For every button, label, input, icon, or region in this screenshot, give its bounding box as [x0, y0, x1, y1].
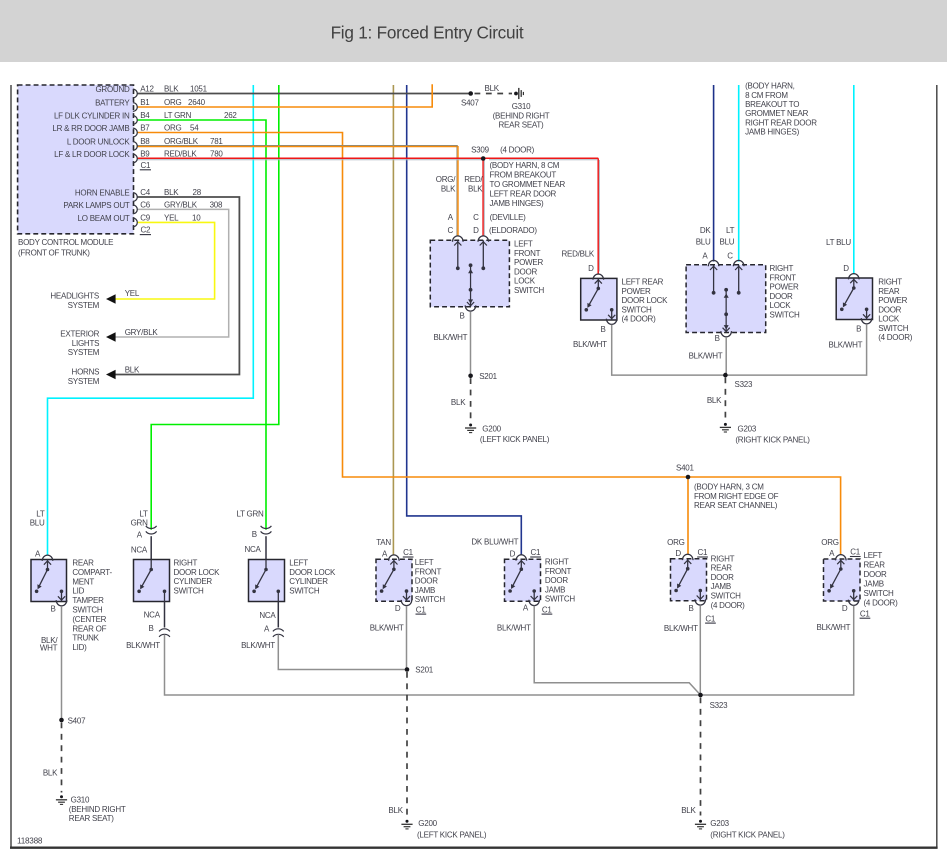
svg-text:JAMB HINGES): JAMB HINGES): [745, 128, 799, 137]
svg-text:LO BEAM OUT: LO BEAM OUT: [78, 214, 130, 223]
splice S323 upper: [723, 373, 728, 378]
svg-text:780: 780: [210, 150, 223, 159]
svg-text:LF DLK CYLINDER IN: LF DLK CYLINDER IN: [54, 112, 130, 121]
splice S323 lower: [698, 693, 703, 698]
svg-text:LR & RR DOOR JAMB: LR & RR DOOR JAMB: [52, 124, 129, 133]
BCM pin B9: [133, 154, 137, 163]
svg-text:C6: C6: [140, 200, 151, 209]
svg-text:DOOR: DOOR: [545, 576, 568, 585]
svg-text:118388: 118388: [17, 837, 43, 846]
svg-text:BLU: BLU: [719, 238, 734, 247]
wire BLK/WHT left front jamb to S201 lower: [406, 606, 408, 670]
svg-text:LOCK: LOCK: [514, 277, 536, 286]
svg-text:REAR: REAR: [711, 564, 733, 573]
svg-text:RIGHT: RIGHT: [878, 278, 902, 287]
svg-text:POWER: POWER: [878, 296, 907, 305]
splice S309: [481, 156, 486, 161]
svg-text:SWITCH: SWITCH: [864, 589, 895, 598]
svg-text:LEFT REAR: LEFT REAR: [622, 278, 664, 287]
svg-text:SWITCH: SWITCH: [878, 324, 909, 333]
wire BLK/WHT right rear jamb to S323 lower: [699, 605, 701, 695]
wire BLK/WHT right front power lock to S323: [725, 337, 727, 375]
svg-text:GROMMET NEAR: GROMMET NEAR: [745, 109, 809, 118]
svg-text:B7: B7: [140, 124, 150, 133]
svg-text:TRUNK: TRUNK: [72, 634, 99, 643]
svg-text:YEL: YEL: [164, 213, 179, 222]
ground G200 left kick panel lower: [406, 820, 409, 823]
svg-text:DOOR: DOOR: [514, 267, 537, 276]
wire BLK/WHT left rear power lock to S323 run: [612, 325, 726, 376]
svg-text:BLK/WHT: BLK/WHT: [573, 340, 607, 349]
svg-text:FRONT: FRONT: [770, 273, 797, 282]
svg-text:TAN: TAN: [376, 538, 391, 547]
svg-text:CYLINDER: CYLINDER: [174, 577, 213, 586]
wire DK BLU from top to right front power door lock switch pin A: [713, 85, 715, 262]
title bar: [0, 0, 947, 62]
svg-text:BLU: BLU: [696, 238, 711, 247]
svg-text:BLK/WHT: BLK/WHT: [829, 341, 863, 350]
svg-text:(4 DOOR): (4 DOOR): [500, 146, 535, 155]
svg-text:RIGHT: RIGHT: [770, 264, 794, 273]
svg-text:(4 DOOR): (4 DOOR): [878, 333, 913, 342]
svg-text:BLK/WHT: BLK/WHT: [664, 624, 698, 633]
svg-text:TO GROMMET NEAR: TO GROMMET NEAR: [490, 180, 566, 189]
svg-text:LT BLU: LT BLU: [826, 238, 851, 247]
svg-text:BLK/WHT: BLK/WHT: [817, 623, 851, 632]
svg-text:LID): LID): [72, 643, 87, 652]
svg-text:DK: DK: [700, 226, 712, 235]
svg-text:B: B: [51, 604, 56, 613]
svg-text:RIGHT: RIGHT: [174, 559, 198, 568]
svg-text:BLK/WHT: BLK/WHT: [434, 333, 468, 342]
svg-text:LT: LT: [36, 510, 45, 519]
wire A12 BLK 1051 to S407: [137, 93, 470, 95]
svg-text:HORN ENABLE: HORN ENABLE: [75, 189, 130, 198]
svg-text:SYSTEM: SYSTEM: [68, 348, 100, 357]
svg-text:HEADLIGHTS: HEADLIGHTS: [50, 292, 99, 301]
BCM pin A12: [133, 89, 137, 98]
svg-text:BLK: BLK: [125, 366, 140, 375]
arrow horns system: [106, 370, 116, 380]
svg-text:SWITCH: SWITCH: [514, 286, 545, 295]
svg-text:PARK LAMPS OUT: PARK LAMPS OUT: [63, 201, 130, 210]
wire BLK/WHT right cylinder switch to S323 lower: [165, 635, 701, 696]
svg-text:C1: C1: [531, 548, 542, 557]
wire TAN from top to left front door jamb switch: [392, 85, 394, 555]
wire BLK/WHT left front power lock to S201: [470, 311, 472, 375]
wire B1 ORG 2640 up to top: [137, 84, 432, 107]
svg-text:B4: B4: [140, 111, 150, 120]
wire LT BLU from top to right front power door lock switch pin C: [738, 85, 740, 262]
ground G310 behind right rear seat lower: [60, 795, 63, 798]
svg-text:HORNS: HORNS: [72, 368, 100, 377]
arrow headlights system: [106, 294, 116, 304]
svg-text:(FRONT OF TRUNK): (FRONT OF TRUNK): [18, 248, 90, 257]
svg-text:LEFT: LEFT: [514, 240, 533, 249]
svg-text:C1: C1: [850, 548, 861, 557]
svg-text:LT: LT: [139, 510, 148, 519]
svg-text:ORG/BLK: ORG/BLK: [164, 137, 199, 146]
svg-text:L DOOR UNLOCK: L DOOR UNLOCK: [67, 138, 131, 147]
svg-text:308: 308: [210, 200, 223, 209]
svg-text:D: D: [473, 226, 479, 235]
wire RED/BLK S309 down to left front power door lock switch pin D: [482, 159, 484, 237]
svg-text:YEL: YEL: [125, 289, 140, 298]
svg-text:REAR SEAT CHANNEL): REAR SEAT CHANNEL): [694, 501, 778, 510]
wire DK BLU/WHT from top to right front door jamb switch: [407, 85, 522, 555]
svg-text:POWER: POWER: [622, 287, 651, 296]
svg-text:A: A: [264, 624, 270, 633]
svg-text:BODY CONTROL MODULE: BODY CONTROL MODULE: [18, 238, 113, 247]
svg-text:ORG: ORG: [667, 538, 685, 547]
ground G203 right kick panel lower: [699, 820, 702, 823]
svg-text:(4 DOOR): (4 DOOR): [622, 315, 657, 324]
svg-text:BATTERY: BATTERY: [95, 99, 130, 108]
svg-text:LF & LR DOOR LOCK: LF & LR DOOR LOCK: [54, 150, 130, 159]
svg-text:B8: B8: [140, 137, 150, 146]
wire LT BLU from top to rear compartment lid tamper switch: [48, 85, 254, 556]
wire BLK/WHT right rear power lock to S323 run: [725, 324, 866, 375]
svg-text:SWITCH: SWITCH: [289, 586, 320, 595]
svg-text:LEFT REAR DOOR: LEFT REAR DOOR: [490, 189, 557, 198]
svg-text:B9: B9: [140, 150, 150, 159]
svg-text:(LEFT KICK PANEL): (LEFT KICK PANEL): [480, 435, 550, 444]
svg-text:C1: C1: [141, 161, 152, 170]
svg-text:JAMB: JAMB: [415, 586, 435, 595]
svg-text:LT: LT: [726, 226, 735, 235]
body control module BCM block: [18, 85, 134, 234]
svg-text:G200: G200: [482, 425, 501, 434]
svg-text:DOOR LOCK: DOOR LOCK: [174, 568, 221, 577]
svg-text:C: C: [727, 251, 733, 260]
BCM pin B1: [133, 103, 137, 112]
wire LT GRN from top to right door lock cylinder switch: [151, 85, 279, 530]
svg-text:DOOR: DOOR: [711, 573, 734, 582]
ground G200 left kick panel upper: [469, 424, 472, 427]
svg-text:LEFT: LEFT: [289, 559, 308, 568]
svg-text:(BEHIND RIGHT: (BEHIND RIGHT: [493, 111, 550, 120]
svg-text:C: C: [473, 213, 479, 222]
svg-text:JAMB: JAMB: [545, 585, 565, 594]
svg-text:NCA: NCA: [144, 611, 161, 620]
wire B8 ORG/BLK 781 to left front power door lock switch pin C: [137, 145, 458, 147]
svg-text:LEFT: LEFT: [415, 558, 434, 567]
splice S401: [686, 475, 691, 480]
splice S407 lower: [59, 718, 64, 723]
svg-text:BLK: BLK: [441, 184, 456, 193]
svg-text:FROM BREAKOUT: FROM BREAKOUT: [490, 170, 557, 179]
wire BLK dashed to G200 lower: [406, 672, 408, 816]
svg-text:POWER: POWER: [770, 283, 799, 292]
svg-text:ORG/: ORG/: [436, 175, 456, 184]
svg-text:S201: S201: [415, 666, 433, 675]
svg-text:B: B: [715, 334, 720, 343]
svg-text:BLK: BLK: [451, 398, 466, 407]
wire C9 YEL 10 to headlights system: [115, 222, 214, 299]
svg-text:2640: 2640: [188, 98, 206, 107]
svg-text:TAMPER: TAMPER: [72, 596, 104, 605]
svg-text:BLK/WHT: BLK/WHT: [689, 352, 723, 361]
wire B4 LT GRN 262 to left door lock cylinder switch: [137, 120, 266, 530]
svg-text:C1: C1: [705, 614, 716, 623]
svg-text:SWITCH: SWITCH: [711, 592, 742, 601]
svg-text:SWITCH: SWITCH: [72, 606, 103, 615]
svg-text:RED/BLK: RED/BLK: [562, 250, 595, 259]
svg-text:(DEVILLE): (DEVILLE): [490, 213, 527, 222]
svg-text:BLK/WHT: BLK/WHT: [370, 623, 404, 632]
svg-text:MENT: MENT: [72, 577, 94, 586]
svg-text:S201: S201: [479, 372, 497, 381]
diagram frame: [10, 85, 12, 848]
svg-text:LOCK: LOCK: [878, 315, 900, 324]
svg-text:D: D: [675, 549, 681, 558]
svg-text:G203: G203: [738, 425, 757, 434]
svg-text:SYSTEM: SYSTEM: [68, 377, 100, 386]
svg-text:RIGHT: RIGHT: [545, 558, 569, 567]
svg-text:DOOR: DOOR: [770, 292, 793, 301]
svg-text:WHT: WHT: [40, 644, 58, 653]
svg-text:C1: C1: [416, 605, 427, 614]
splice S407: [468, 91, 473, 96]
svg-text:GRY/BLK: GRY/BLK: [164, 200, 198, 209]
svg-text:10: 10: [192, 213, 201, 222]
svg-text:BREAKOUT TO: BREAKOUT TO: [745, 100, 799, 109]
svg-text:D: D: [842, 604, 848, 613]
svg-text:S407: S407: [461, 99, 479, 108]
svg-text:LT GRN: LT GRN: [236, 510, 264, 519]
svg-text:REAR SEAT): REAR SEAT): [499, 121, 545, 130]
wire C6 GRY/BLK 308 to exterior lights system: [115, 209, 228, 337]
svg-text:(CENTER: (CENTER: [72, 615, 106, 624]
svg-text:A: A: [382, 550, 388, 559]
svg-text:S309: S309: [471, 146, 489, 155]
svg-text:Fig 1: Forced Entry Circuit: Fig 1: Forced Entry Circuit: [331, 22, 524, 42]
svg-text:A12: A12: [140, 85, 154, 94]
svg-text:G310: G310: [512, 102, 531, 111]
svg-text:1051: 1051: [190, 85, 208, 94]
svg-text:RIGHT REAR DOOR: RIGHT REAR DOOR: [745, 118, 817, 127]
svg-text:781: 781: [210, 137, 223, 146]
svg-text:8 CM FROM: 8 CM FROM: [745, 91, 788, 100]
svg-text:C1: C1: [403, 548, 414, 557]
svg-text:DOOR LOCK: DOOR LOCK: [622, 296, 669, 305]
svg-text:BLK: BLK: [468, 184, 483, 193]
svg-text:G200: G200: [418, 819, 437, 828]
svg-text:(RIGHT KICK PANEL): (RIGHT KICK PANEL): [735, 436, 810, 445]
BCM pin C9: [133, 218, 137, 227]
svg-text:C2: C2: [141, 225, 152, 234]
BCM pin C4: [133, 193, 137, 202]
wire BLK dashed to G203 upper: [724, 378, 726, 422]
wire BLK dashed to G203 lower: [700, 698, 702, 816]
svg-text:LID: LID: [72, 587, 84, 596]
svg-text:C1: C1: [860, 609, 871, 618]
wire BLK dashed to G310: [475, 93, 513, 95]
wire RED/BLK S309 to left rear power door lock switch pin D: [483, 157, 598, 159]
svg-text:(BODY HARN, 8 CM: (BODY HARN, 8 CM: [490, 161, 560, 170]
svg-text:A: A: [35, 550, 41, 559]
svg-text:BLK: BLK: [388, 806, 403, 815]
svg-text:LT GRN: LT GRN: [164, 111, 192, 120]
wire LT BLU from top to right rear power door lock switch pin D: [853, 85, 855, 274]
svg-text:S401: S401: [676, 464, 694, 473]
svg-text:(BODY HARN,: (BODY HARN,: [745, 82, 795, 91]
svg-text:NCA: NCA: [131, 545, 148, 554]
svg-text:C: C: [448, 226, 454, 235]
svg-text:B: B: [601, 325, 606, 334]
svg-text:GROUND: GROUND: [95, 85, 130, 94]
svg-text:BLU: BLU: [30, 519, 45, 528]
svg-text:S323: S323: [710, 701, 728, 710]
svg-text:BLK: BLK: [164, 85, 179, 94]
BCM pin B4: [133, 116, 137, 125]
svg-text:S323: S323: [735, 380, 753, 389]
svg-text:D: D: [843, 264, 849, 273]
svg-text:C1: C1: [698, 548, 709, 557]
svg-text:G310: G310: [71, 796, 90, 805]
svg-text:COMPART-: COMPART-: [72, 568, 112, 577]
svg-text:SWITCH: SWITCH: [415, 595, 446, 604]
svg-text:B: B: [856, 325, 861, 334]
svg-text:A: A: [523, 604, 529, 613]
svg-text:D: D: [588, 264, 594, 273]
splice S201 upper: [468, 374, 473, 379]
BCM pin B8: [133, 142, 137, 151]
svg-text:28: 28: [193, 188, 202, 197]
wire BLK dashed to G200 upper: [470, 378, 472, 421]
svg-text:POWER: POWER: [514, 258, 543, 267]
svg-text:GRY/BLK: GRY/BLK: [125, 328, 159, 337]
svg-text:ORG: ORG: [164, 98, 182, 107]
BCM pin C6: [133, 205, 137, 214]
svg-text:B: B: [148, 624, 153, 633]
svg-text:A: A: [137, 530, 143, 539]
svg-text:DK BLU/WHT: DK BLU/WHT: [471, 538, 518, 547]
svg-text:SWITCH: SWITCH: [770, 311, 801, 320]
svg-text:DOOR LOCK: DOOR LOCK: [289, 568, 336, 577]
svg-text:LEFT: LEFT: [864, 551, 883, 560]
svg-text:C4: C4: [140, 188, 151, 197]
svg-text:(ELDORADO): (ELDORADO): [489, 226, 537, 235]
splice S201 lower: [405, 667, 410, 672]
svg-text:RIGHT: RIGHT: [711, 554, 735, 563]
wire BLK/WHT left rear jamb to S323 lower: [701, 606, 854, 695]
svg-text:LOCK: LOCK: [770, 301, 792, 310]
svg-text:DOOR: DOOR: [878, 305, 901, 314]
svg-text:B: B: [460, 312, 465, 321]
svg-text:S407: S407: [68, 717, 86, 726]
ground G203 right kick panel upper: [724, 423, 727, 426]
wire C4 BLK 28 to horns system: [115, 197, 239, 375]
svg-text:(BODY HARN, 3 CM: (BODY HARN, 3 CM: [694, 483, 764, 492]
svg-text:C1: C1: [542, 605, 553, 614]
wire BLK dashed to G310 lower: [61, 723, 63, 793]
svg-text:BLK: BLK: [43, 769, 58, 778]
svg-text:BLK: BLK: [164, 188, 179, 197]
svg-text:REAR: REAR: [864, 561, 886, 570]
wire BLK/WHT right front jamb to S323 lower with jog: [534, 606, 700, 695]
svg-text:(RIGHT KICK PANEL): (RIGHT KICK PANEL): [710, 830, 785, 839]
svg-text:BLK: BLK: [707, 396, 722, 405]
svg-text:A: A: [702, 251, 708, 260]
svg-text:(LEFT KICK PANEL): (LEFT KICK PANEL): [417, 830, 487, 839]
svg-text:262: 262: [224, 111, 237, 120]
svg-text:(4 DOOR): (4 DOOR): [864, 599, 899, 608]
svg-text:RED/: RED/: [464, 175, 483, 184]
svg-text:JAMB: JAMB: [711, 582, 731, 591]
svg-text:CYLINDER: CYLINDER: [289, 577, 328, 586]
svg-text:EXTERIOR: EXTERIOR: [60, 330, 99, 339]
svg-text:RED/BLK: RED/BLK: [164, 150, 197, 159]
svg-text:JAMB: JAMB: [864, 580, 884, 589]
BCM pin B7: [133, 128, 137, 137]
svg-text:SWITCH: SWITCH: [622, 305, 653, 314]
svg-text:FROM RIGHT EDGE OF: FROM RIGHT EDGE OF: [694, 492, 779, 501]
svg-text:REAR: REAR: [72, 559, 94, 568]
ground G310 behind right rear seat: [514, 92, 518, 96]
svg-text:D: D: [510, 549, 516, 558]
svg-text:BLK/WHT: BLK/WHT: [497, 623, 531, 632]
svg-text:FRONT: FRONT: [415, 567, 442, 576]
svg-text:SWITCH: SWITCH: [545, 595, 576, 604]
svg-text:GRN: GRN: [131, 519, 149, 528]
svg-text:C9: C9: [140, 213, 151, 222]
svg-text:ORG: ORG: [821, 538, 839, 547]
svg-text:BLK: BLK: [485, 84, 500, 93]
svg-text:B: B: [252, 530, 257, 539]
svg-text:DOOR: DOOR: [864, 570, 887, 579]
svg-text:REAR: REAR: [878, 287, 900, 296]
svg-text:ORG: ORG: [164, 124, 182, 133]
svg-text:LIGHTS: LIGHTS: [72, 339, 99, 348]
wire B9 RED/BLK 780 to S309: [137, 157, 483, 159]
svg-text:A: A: [829, 549, 835, 558]
svg-text:DOOR: DOOR: [415, 577, 438, 586]
svg-text:REAR OF: REAR OF: [72, 624, 106, 633]
svg-text:G203: G203: [710, 819, 729, 828]
svg-text:SWITCH: SWITCH: [174, 586, 205, 595]
svg-text:SYSTEM: SYSTEM: [68, 301, 100, 310]
wire BLK/WHT left cylinder switch to S201 lower: [278, 635, 407, 670]
wire ORG branch S401 down to right rear door jamb switch: [687, 477, 689, 555]
svg-text:FRONT: FRONT: [545, 567, 572, 576]
wire BLK/WHT tamper switch to S407 lower: [61, 606, 63, 720]
svg-text:BLK: BLK: [681, 806, 696, 815]
svg-text:B1: B1: [140, 98, 150, 107]
svg-text:FRONT: FRONT: [514, 249, 541, 258]
arrow exterior lights system: [106, 332, 116, 342]
svg-text:BLK/WHT: BLK/WHT: [126, 641, 160, 650]
svg-text:JAMB HINGES): JAMB HINGES): [490, 199, 544, 208]
svg-text:54: 54: [190, 124, 199, 133]
svg-text:B: B: [689, 604, 694, 613]
svg-text:(BEHIND RIGHT: (BEHIND RIGHT: [69, 805, 126, 814]
svg-text:D: D: [395, 604, 401, 613]
svg-text:(4 DOOR): (4 DOOR): [711, 601, 746, 610]
svg-text:A: A: [448, 213, 454, 222]
svg-text:REAR SEAT): REAR SEAT): [69, 814, 115, 823]
svg-text:NCA: NCA: [259, 611, 276, 620]
svg-text:BLK/WHT: BLK/WHT: [241, 641, 275, 650]
wire B7 ORG 54 to S401 and rear door jamb switches: [137, 133, 840, 556]
svg-text:NCA: NCA: [244, 545, 261, 554]
